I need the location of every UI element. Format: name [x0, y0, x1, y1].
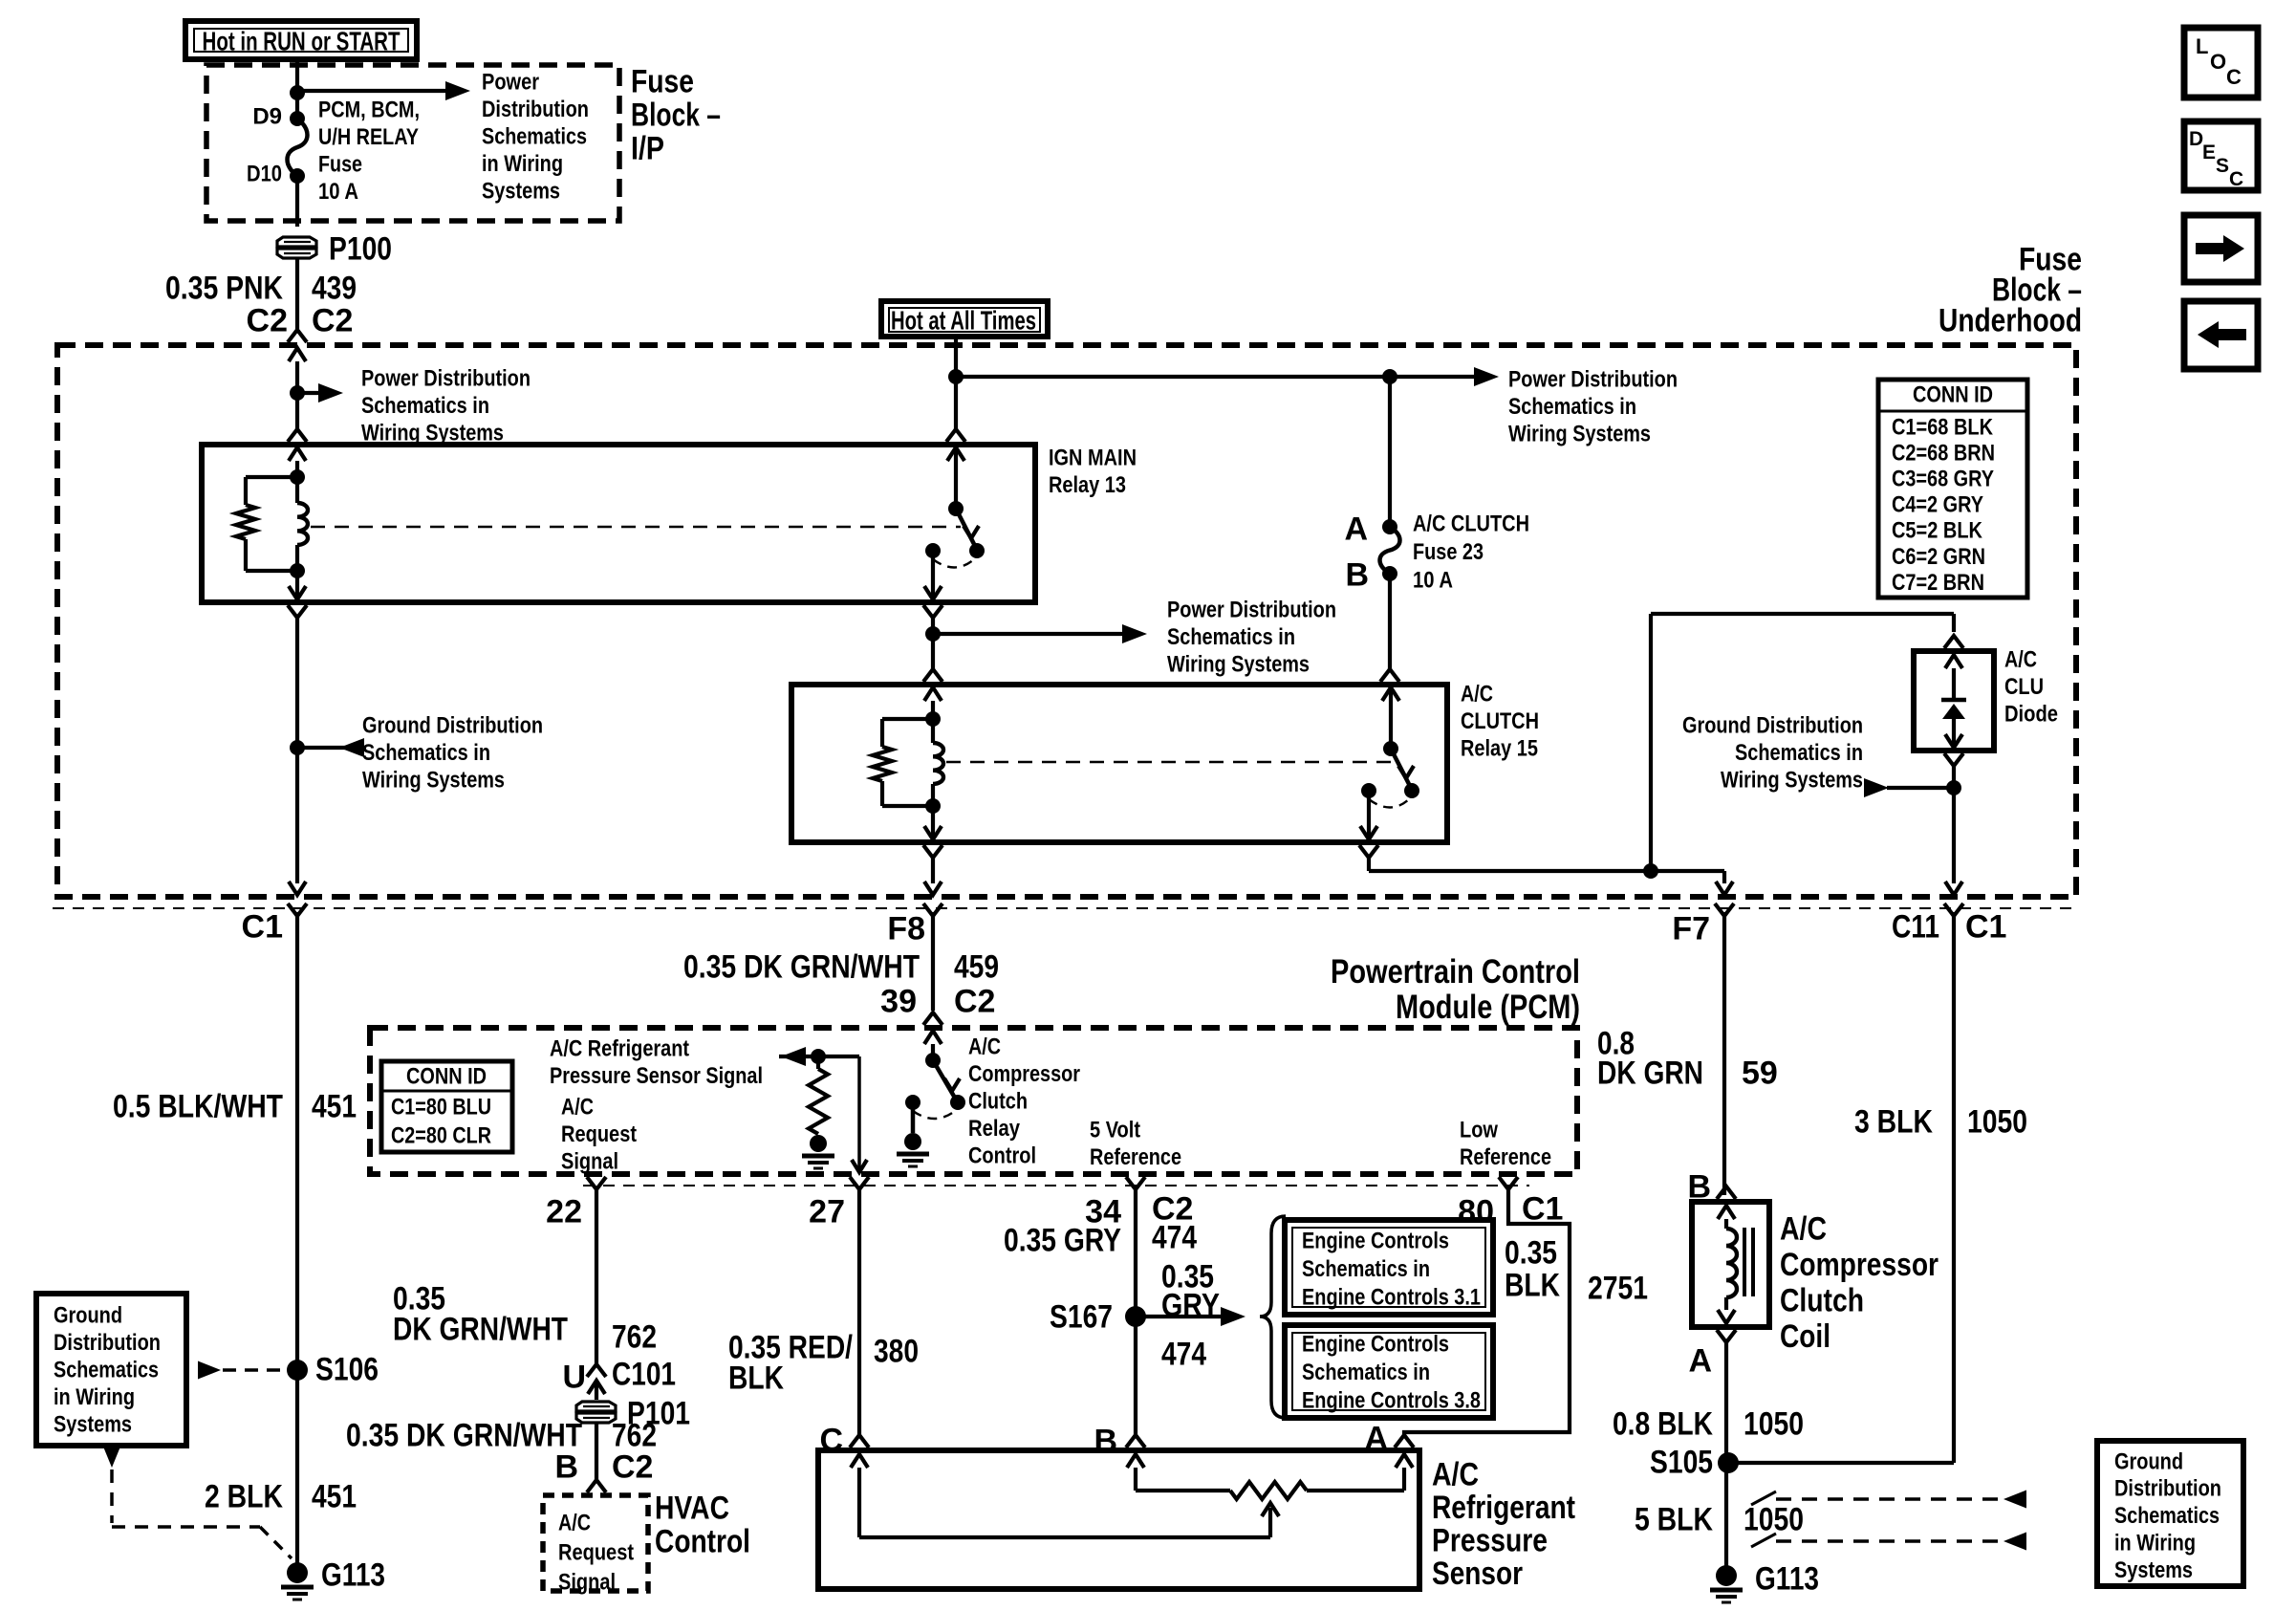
terminal: left wire into underhood block [289, 348, 306, 361]
connector P100 [277, 237, 316, 247]
svg-text:C101: C101 [612, 1357, 676, 1393]
svg-text:C2: C2 [954, 984, 995, 1020]
relay box: A/C CLUTCH Relay 15 [791, 685, 1447, 842]
svg-text:in Wiring: in Wiring [482, 151, 563, 177]
wire: down to IGN MAIN relay [295, 393, 299, 429]
svg-text:CLUTCH: CLUTCH [1461, 708, 1539, 734]
svg-text:Compressor: Compressor [968, 1061, 1080, 1087]
wire: hot feed down to fuse 23 [1388, 377, 1392, 527]
svg-text:C2=80 CLR: C2=80 CLR [391, 1122, 491, 1148]
terminal: relay 13 output fork [923, 605, 942, 618]
fuse: PCM BCM U/H RELAY Fuse 10A (D9-D10) [290, 111, 305, 126]
svg-text:1050: 1050 [1744, 1502, 1804, 1538]
dashed pointer: box to S106 [198, 1361, 221, 1380]
wire: down to A/C clutch relay [931, 634, 935, 669]
svg-text:G113: G113 [1755, 1561, 1819, 1598]
icon: forward arrow [2184, 215, 2258, 282]
svg-text:451: 451 [312, 1089, 357, 1125]
svg-text:10 A: 10 A [318, 179, 358, 205]
svg-text:A: A [1344, 512, 1368, 548]
sensor box: A/C Refrigerant Pressure Sensor [818, 1450, 1419, 1589]
svg-text:Fuse: Fuse [318, 152, 362, 178]
svg-text:C4=2 GRY: C4=2 GRY [1892, 492, 1983, 518]
node: junction at A/C clutch fuse [1382, 369, 1397, 384]
svg-text:459: 459 [954, 949, 999, 986]
wire: pointer to Ground Distribution text [297, 746, 353, 750]
svg-text:Power Distribution: Power Distribution [1167, 597, 1336, 622]
svg-text:D10: D10 [247, 161, 282, 186]
svg-text:U/H RELAY: U/H RELAY [318, 124, 419, 150]
svg-text:F8: F8 [887, 911, 925, 947]
svg-text:C11: C11 [1892, 909, 1939, 946]
svg-text:C2: C2 [247, 303, 288, 339]
inductor: IGN relay coil [297, 503, 308, 545]
node: junction at fuse feed [290, 85, 305, 100]
svg-text:BLK: BLK [1505, 1268, 1560, 1304]
svg-text:CONN ID: CONN ID [1913, 381, 1993, 407]
svg-text:0.35: 0.35 [1505, 1235, 1557, 1272]
dashed pointer: box to G113 (left) [103, 1447, 120, 1468]
table: CONN ID underhood [1878, 380, 2027, 598]
wire: down to IGN relay switch [954, 377, 958, 429]
resistor: pressure signal pull-up [779, 1055, 859, 1058]
svg-text:C: C [2229, 168, 2243, 190]
splice S106 [287, 1360, 308, 1381]
wire: relay15 coil output [931, 806, 935, 839]
svg-text:439: 439 [312, 271, 357, 307]
connector P101 [576, 1402, 616, 1411]
wiper arrow [859, 1535, 1270, 1539]
svg-text:Control: Control [968, 1143, 1036, 1169]
svg-text:C3=68 GRY: C3=68 GRY [1892, 467, 1994, 492]
table: CONN ID PCM [381, 1061, 512, 1152]
terminal: C1 left exit [288, 903, 307, 916]
wire: diode branch top run [1651, 612, 1954, 616]
sensor pin C internal [851, 1454, 868, 1468]
terminal: pin 27 [850, 1177, 869, 1189]
wire: pin 22 to C101 [595, 1189, 598, 1364]
svg-text:A/C Refrigerant: A/C Refrigerant [550, 1035, 689, 1061]
svg-text:S106: S106 [315, 1352, 379, 1388]
svg-text:DK GRN/WHT: DK GRN/WHT [393, 1312, 568, 1348]
svg-text:GRY: GRY [1161, 1288, 1220, 1324]
svg-text:Hot in RUN or START: Hot in RUN or START [203, 26, 401, 55]
svg-text:O: O [2210, 50, 2226, 74]
svg-text:PCM, BCM,: PCM, BCM, [318, 97, 420, 122]
svg-text:Distribution: Distribution [54, 1330, 161, 1356]
svg-text:Relay 15: Relay 15 [1461, 736, 1538, 762]
reference box: Engine Controls 3.8 [1285, 1325, 1493, 1418]
svg-text:39: 39 [880, 984, 917, 1020]
reference box: Engine Controls 3.1 [1285, 1220, 1493, 1315]
svg-text:I/P: I/P [631, 131, 664, 167]
svg-text:Schematics in: Schematics in [1302, 1256, 1430, 1282]
svg-text:Wiring Systems: Wiring Systems [1167, 652, 1310, 678]
terminal arrow into relay 15 coil [924, 687, 942, 701]
fuse: A/C CLUTCH Fuse 23 10A [1382, 519, 1397, 534]
node: junction below relay 13 [925, 626, 941, 642]
wire: left wire to bottom of underhood box [295, 748, 299, 883]
wire: relay15 coil bottom link [882, 804, 933, 808]
svg-text:0.35 GRY: 0.35 GRY [1004, 1223, 1121, 1259]
svg-text:Underhood: Underhood [1939, 303, 2082, 339]
wire: P100 to fuse block underhood [295, 258, 299, 329]
wire: pin 80 to sensor low ref [1404, 1189, 1570, 1435]
svg-text:in Wiring: in Wiring [54, 1384, 135, 1410]
svg-text:Module (PCM): Module (PCM) [1396, 989, 1580, 1026]
wire: 3 BLK return to S105 [1728, 1461, 1954, 1465]
svg-text:22: 22 [546, 1194, 582, 1230]
svg-text:Schematics in: Schematics in [1735, 740, 1863, 766]
svg-text:Ground: Ground [54, 1302, 122, 1328]
relay 15 coil node top [925, 711, 941, 727]
splice S105 [1718, 1452, 1739, 1473]
brace for engine controls references [1260, 1216, 1286, 1418]
svg-text:Reference: Reference [1460, 1144, 1551, 1170]
svg-text:Power: Power [482, 69, 539, 95]
svg-text:C2: C2 [612, 1449, 653, 1486]
power label box: Hot in RUN or START [185, 21, 417, 59]
svg-text:Schematics in: Schematics in [361, 393, 489, 419]
svg-text:Coil: Coil [1780, 1318, 1830, 1355]
reference box: Ground Distribution (right) [2097, 1441, 2243, 1586]
svg-text:P100: P100 [329, 231, 392, 268]
svg-text:Refrigerant: Refrigerant [1432, 1490, 1575, 1526]
ground: PCM internal (resistor) [810, 1135, 827, 1152]
svg-text:A: A [1688, 1343, 1712, 1380]
svg-text:0.35 DK GRN/WHT: 0.35 DK GRN/WHT [346, 1418, 582, 1454]
svg-text:5 Volt: 5 Volt [1090, 1117, 1140, 1143]
node: junction with diode branch [1643, 863, 1658, 879]
svg-text:Compressor: Compressor [1780, 1247, 1939, 1283]
svg-text:Request: Request [561, 1121, 637, 1147]
wire: hot at all times feed [954, 337, 958, 377]
wire: relay15 coil top link [882, 717, 933, 721]
wire: switch output to box edge [931, 551, 935, 599]
svg-text:HVAC: HVAC [655, 1491, 729, 1527]
terminal: sensor pin B [1126, 1435, 1145, 1448]
svg-text:Schematics in: Schematics in [1508, 394, 1636, 420]
ground: PCM internal (driver) [911, 1102, 916, 1133]
svg-text:A/C: A/C [1780, 1211, 1827, 1248]
svg-text:S: S [2216, 155, 2229, 177]
terminal: diode bottom fork [1944, 753, 1963, 766]
potentiometer: pressure sensing element [1136, 1489, 1230, 1492]
relay coil node top [290, 469, 305, 485]
wire: P101 to HVAC [595, 1423, 598, 1480]
clutch coil element [1718, 1206, 1735, 1219]
svg-text:Wiring Systems: Wiring Systems [1721, 768, 1863, 794]
wire: fuse 23 to A/C clutch relay [1388, 574, 1392, 669]
svg-text:Engine Controls: Engine Controls [1302, 1228, 1449, 1253]
svg-text:B: B [1094, 1424, 1117, 1460]
svg-text:59: 59 [1742, 1056, 1778, 1092]
dashed pointer: S105 to ground distribution box [1751, 1491, 1776, 1505]
svg-text:Schematics: Schematics [54, 1358, 159, 1383]
svg-text:CONN ID: CONN ID [406, 1063, 487, 1089]
terminal: sensor pin A [1395, 1435, 1414, 1448]
svg-text:Schematics: Schematics [2114, 1503, 2220, 1529]
terminal: F7 exit [1715, 903, 1734, 916]
wire: hot bus to the right [956, 375, 1482, 379]
wire: arrow to Power Distribution (I/P) [297, 89, 453, 93]
connector face line under PCM [583, 1185, 1529, 1186]
wire: coil top link [246, 475, 297, 479]
wire: arrow to Power Distribution (underhood left) [297, 391, 326, 395]
HVAC Control dashed box [543, 1495, 648, 1591]
coil box: A/C Compressor Clutch Coil [1692, 1202, 1769, 1327]
svg-text:A/C: A/C [2004, 646, 2037, 672]
svg-text:Schematics in: Schematics in [362, 740, 490, 766]
svg-text:A/C: A/C [1461, 681, 1493, 707]
svg-text:Engine Controls 3.1: Engine Controls 3.1 [1302, 1284, 1481, 1310]
wire: F7 drop [1722, 871, 1726, 883]
svg-text:A/C: A/C [1432, 1457, 1479, 1493]
svg-text:IGN MAIN: IGN MAIN [1049, 445, 1137, 470]
resistor: IGN relay suppression resistor [236, 505, 255, 539]
icon: LOC [2184, 28, 2258, 98]
terminal: F8 exit [923, 903, 942, 916]
svg-text:Fuse: Fuse [631, 64, 694, 100]
svg-text:Clutch: Clutch [968, 1089, 1028, 1115]
svg-text:Hot at All Times: Hot at All Times [891, 305, 1036, 335]
svg-text:Block –: Block – [631, 98, 721, 134]
svg-text:B: B [554, 1449, 578, 1486]
svg-text:C7=2 BRN: C7=2 BRN [1892, 570, 1984, 596]
svg-text:G113: G113 [321, 1557, 385, 1594]
svg-text:C2: C2 [312, 303, 353, 339]
node: hot feed junction [948, 369, 964, 384]
clutch coil core lines [1743, 1228, 1746, 1296]
resistor: relay 15 suppression resistor [873, 747, 892, 781]
svg-text:U: U [562, 1360, 586, 1396]
switch: A/C compressor clutch relay control driver [931, 1044, 935, 1060]
wire: pin 34 to sensor B [1134, 1189, 1137, 1435]
diode element [1945, 655, 1962, 668]
node: junction to power distribution arrow [290, 385, 305, 401]
terminal: pin 22 [587, 1177, 606, 1189]
svg-text:3 BLK: 3 BLK [1854, 1104, 1933, 1141]
terminal: clutch coil A [1717, 1330, 1736, 1342]
wire: coil A to S105 [1724, 1342, 1728, 1569]
wire: diode branch vertical [1649, 614, 1653, 871]
terminal: pin 39 into PCM [923, 1012, 942, 1025]
svg-text:27: 27 [809, 1194, 845, 1230]
svg-text:474: 474 [1152, 1220, 1197, 1256]
svg-text:D9: D9 [252, 103, 282, 129]
svg-text:0.35 DK GRN/WHT: 0.35 DK GRN/WHT [683, 949, 920, 986]
svg-text:Systems: Systems [54, 1412, 132, 1438]
svg-text:C1: C1 [242, 909, 283, 946]
svg-text:B: B [1345, 557, 1369, 594]
svg-text:Schematics in: Schematics in [1302, 1360, 1430, 1385]
svg-text:Wiring Systems: Wiring Systems [1508, 422, 1651, 447]
inductor: relay 15 coil [933, 743, 943, 784]
svg-text:Schematics: Schematics [482, 124, 587, 150]
terminal: C11/C1 exit [1944, 903, 1963, 916]
terminal: pin 34 [1126, 1177, 1145, 1189]
terminal: relay 15 output fork (F7 path) [1359, 845, 1378, 858]
svg-text:80: 80 [1458, 1194, 1494, 1230]
Fuse Block - I/P dashed box [206, 65, 619, 221]
wire: fuse D10 to P100 [295, 176, 299, 227]
svg-text:380: 380 [874, 1334, 919, 1370]
wire: pointer from ground distribution text [1887, 786, 1954, 790]
svg-text:Systems: Systems [482, 179, 560, 205]
svg-text:0.35 PNK: 0.35 PNK [165, 271, 283, 307]
svg-text:C1=80 BLU: C1=80 BLU [391, 1094, 491, 1120]
node: junction ground distribution (diode leg) [1946, 780, 1961, 795]
relay coil node bottom [290, 563, 305, 578]
svg-text:CLU: CLU [2004, 674, 2044, 700]
wire: relay15 switch output [1367, 791, 1371, 839]
svg-text:Powertrain Control: Powertrain Control [1331, 953, 1580, 991]
svg-text:Request: Request [558, 1539, 634, 1565]
svg-text:BLK: BLK [728, 1361, 784, 1397]
svg-text:762: 762 [612, 1319, 657, 1356]
dashed pointer: G113 to ground distribution box [1751, 1534, 1776, 1547]
svg-text:A/C: A/C [968, 1034, 1001, 1059]
PCM dashed box [370, 1028, 1577, 1174]
terminal: relay 15 coil return fork (F8) [923, 845, 942, 858]
svg-text:Ground Distribution: Ground Distribution [1682, 712, 1863, 738]
svg-text:Reference: Reference [1090, 1144, 1181, 1170]
svg-text:C5=2 BLK: C5=2 BLK [1892, 518, 1983, 544]
terminal: pin 80 [1499, 1177, 1518, 1189]
terminal arrow into relay coil [289, 447, 306, 461]
wire: coil output to box edge [295, 571, 299, 599]
svg-text:1050: 1050 [1744, 1406, 1804, 1443]
svg-text:S105: S105 [1650, 1445, 1713, 1481]
svg-text:A/C: A/C [561, 1094, 594, 1120]
svg-text:Pressure: Pressure [1432, 1523, 1548, 1559]
wire: arrow to Power Distribution (middle) [933, 632, 1130, 636]
svg-text:C1: C1 [1965, 909, 2006, 946]
wire: arrow to Power Distribution (top right) [1474, 367, 1499, 386]
svg-text:Low: Low [1460, 1117, 1498, 1143]
svg-text:Engine Controls 3.8: Engine Controls 3.8 [1302, 1387, 1481, 1413]
svg-text:451: 451 [312, 1479, 357, 1515]
svg-text:C2=68 BRN: C2=68 BRN [1892, 440, 1995, 466]
svg-text:L: L [2196, 34, 2208, 58]
svg-text:Sensor: Sensor [1432, 1556, 1523, 1592]
svg-text:S167: S167 [1050, 1299, 1113, 1336]
svg-text:C: C [2226, 65, 2242, 89]
svg-text:Distribution: Distribution [482, 97, 589, 122]
svg-text:Power Distribution: Power Distribution [361, 365, 531, 391]
svg-text:Control: Control [655, 1524, 750, 1560]
icon: DESC [2184, 121, 2258, 190]
ground G113 (right) [1716, 1565, 1737, 1586]
dashed linkage relay 15 [946, 761, 1396, 763]
svg-text:474: 474 [1161, 1337, 1206, 1373]
svg-text:5 BLK: 5 BLK [1635, 1502, 1713, 1538]
wire: coil bottom link [246, 569, 297, 573]
svg-text:0.8 BLK: 0.8 BLK [1613, 1406, 1713, 1443]
wire: S167 arrow to engine controls [1136, 1315, 1228, 1318]
connector C101 crossing [587, 1364, 606, 1377]
svg-text:F7: F7 [1672, 911, 1710, 947]
svg-text:Clutch: Clutch [1780, 1283, 1864, 1319]
wire: down into diode [1952, 614, 1956, 632]
relay box: IGN MAIN Relay 13 [202, 445, 1035, 602]
svg-text:C1=68 BLK: C1=68 BLK [1892, 414, 1994, 440]
switch: relay 15 contacts [1389, 685, 1393, 749]
wire: ignition feed into I/P fuse block [295, 59, 299, 119]
terminal: into HVAC control [587, 1480, 606, 1492]
icon: back arrow [2184, 301, 2258, 369]
svg-text:10 A: 10 A [1413, 567, 1453, 593]
svg-text:Wiring Systems: Wiring Systems [362, 768, 505, 794]
svg-text:Relay 13: Relay 13 [1049, 472, 1126, 498]
switch: IGN relay contacts [954, 445, 958, 509]
diode box: A/C CLU Diode [1914, 651, 1994, 751]
svg-text:Signal: Signal [561, 1149, 618, 1175]
svg-text:2751: 2751 [1588, 1271, 1648, 1307]
dashed linkage IGN relay [311, 526, 961, 528]
svg-text:E: E [2202, 142, 2216, 163]
svg-text:in Wiring: in Wiring [2114, 1531, 2196, 1557]
svg-text:Systems: Systems [2114, 1557, 2193, 1583]
svg-text:Power Distribution: Power Distribution [1508, 366, 1678, 392]
sensor pin A internal [1396, 1454, 1413, 1468]
svg-text:Distribution: Distribution [2114, 1476, 2221, 1502]
svg-text:2 BLK: 2 BLK [205, 1479, 283, 1515]
svg-text:Pressure Sensor Signal: Pressure Sensor Signal [550, 1063, 763, 1089]
reference box: Ground Distribution (left) [36, 1294, 186, 1446]
svg-text:1050: 1050 [1967, 1104, 2027, 1141]
power label box: Hot at All Times [881, 301, 1048, 337]
node: junction to ground distribution arrow [290, 740, 305, 755]
svg-text:A/C CLUTCH: A/C CLUTCH [1413, 511, 1529, 536]
wire: pin 27 to sensor C [857, 1189, 861, 1435]
svg-text:Fuse 23: Fuse 23 [1413, 539, 1484, 565]
splice S167 [1125, 1306, 1146, 1327]
svg-text:D: D [2189, 128, 2203, 150]
terminal: sensor pin C [850, 1435, 869, 1448]
svg-text:Schematics in: Schematics in [1167, 624, 1295, 650]
svg-text:0.5 BLK/WHT: 0.5 BLK/WHT [113, 1089, 283, 1125]
svg-text:Diode: Diode [2004, 702, 2058, 728]
svg-text:Relay: Relay [968, 1116, 1021, 1142]
svg-text:Engine Controls: Engine Controls [1302, 1331, 1449, 1357]
sensor pin B internal [1127, 1454, 1144, 1468]
wire: relay output horizontal run to F7 [1369, 869, 1724, 873]
connector face line under fuse block [53, 907, 2076, 909]
terminal: clutch coil B [1717, 1186, 1736, 1199]
svg-text:Signal: Signal [558, 1569, 616, 1595]
Fuse Block - Underhood dashed box [57, 345, 2076, 897]
ground G113 (left) [287, 1562, 308, 1583]
terminal: relay 13 coil return fork [288, 605, 307, 618]
svg-text:DK GRN: DK GRN [1597, 1056, 1703, 1092]
svg-text:Ground Distribution: Ground Distribution [362, 712, 543, 738]
svg-text:Ground: Ground [2114, 1448, 2183, 1474]
relay 15 coil node bottom [925, 798, 941, 814]
svg-text:A/C: A/C [558, 1510, 591, 1535]
svg-text:C6=2 GRN: C6=2 GRN [1892, 544, 1985, 570]
wire: pin27 drop inside PCM [857, 1056, 861, 1170]
